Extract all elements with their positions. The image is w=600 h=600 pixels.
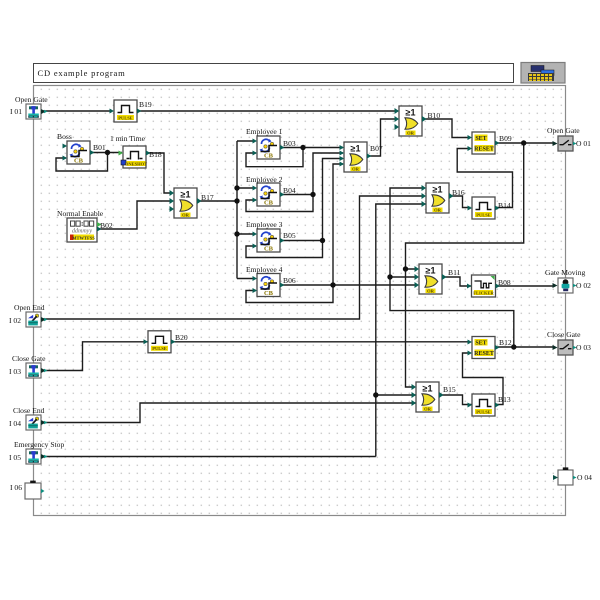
svg-text:Employee 3: Employee 3	[246, 220, 283, 229]
svg-text:Open End: Open End	[14, 303, 45, 312]
svg-text:Employee 1: Employee 1	[246, 127, 283, 136]
svg-text:O 01: O 01	[576, 139, 591, 148]
svg-text:I 05: I 05	[9, 453, 21, 462]
svg-text:B04: B04	[283, 186, 296, 195]
svg-text:I 01: I 01	[10, 107, 22, 116]
svg-text:Open Gate: Open Gate	[547, 126, 580, 135]
svg-text:B05: B05	[283, 231, 296, 240]
svg-text:B07: B07	[370, 144, 383, 153]
svg-text:1 min Time: 1 min Time	[110, 134, 146, 143]
svg-text:O 03: O 03	[576, 343, 591, 352]
svg-text:B09: B09	[499, 134, 512, 143]
svg-text:B10: B10	[428, 111, 441, 120]
svg-text:Close End: Close End	[13, 406, 45, 415]
svg-text:Normal Enable: Normal Enable	[57, 209, 104, 218]
svg-text:I 06: I 06	[10, 483, 22, 492]
svg-text:B02: B02	[100, 221, 113, 230]
svg-text:Employee 2: Employee 2	[246, 175, 283, 184]
svg-text:I 02: I 02	[9, 316, 21, 325]
svg-text:B14: B14	[498, 201, 511, 210]
svg-text:Close Gate: Close Gate	[12, 354, 46, 363]
svg-text:B15: B15	[443, 385, 456, 394]
svg-text:CD example program: CD example program	[38, 68, 126, 78]
svg-text:Employee 4: Employee 4	[246, 265, 283, 274]
svg-text:B03: B03	[283, 139, 296, 148]
svg-text:I 04: I 04	[9, 419, 21, 428]
svg-text:B17: B17	[201, 193, 214, 202]
svg-text:I 03: I 03	[9, 367, 21, 376]
svg-text:B13: B13	[498, 395, 511, 404]
svg-text:B16: B16	[452, 188, 465, 197]
svg-text:B20: B20	[175, 333, 188, 342]
svg-text:B08: B08	[498, 278, 511, 287]
svg-text:Close Gate: Close Gate	[547, 330, 581, 339]
svg-text:B01: B01	[93, 143, 106, 152]
svg-text:B06: B06	[283, 276, 296, 285]
svg-text:Emergency Stop: Emergency Stop	[14, 440, 64, 449]
svg-text:B18: B18	[149, 150, 162, 159]
svg-text:Boss: Boss	[57, 132, 72, 141]
svg-text:B19: B19	[139, 100, 152, 109]
svg-text:B12: B12	[499, 338, 512, 347]
svg-text:Open Gate: Open Gate	[15, 95, 48, 104]
svg-text:B11: B11	[448, 268, 461, 277]
svg-text:O 04: O 04	[577, 473, 592, 482]
svg-text:Gate Moving: Gate Moving	[545, 268, 585, 277]
svg-text:O 02: O 02	[576, 281, 591, 290]
